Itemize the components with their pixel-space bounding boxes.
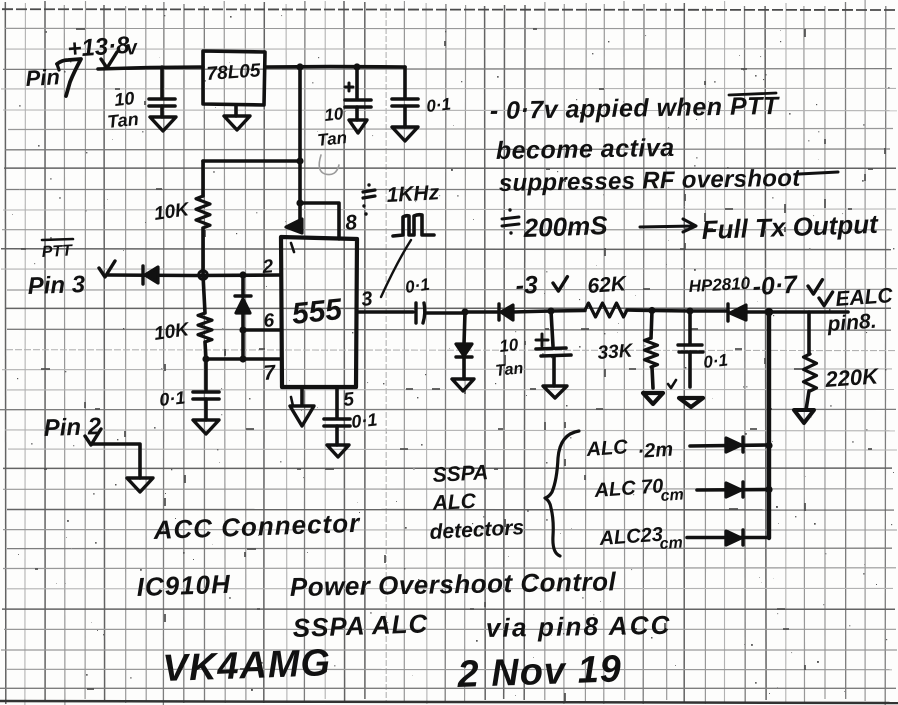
wire rail segment: [465, 310, 499, 314]
wire 78L05 output rail: [265, 65, 405, 69]
svg-text:0·1: 0·1: [425, 95, 451, 116]
svg-text:220K: 220K: [824, 363, 881, 392]
node +13.8V supply label: [67, 32, 141, 68]
capacitor 10uF tantalum C2 with plus: [345, 63, 371, 120]
ground C2: [349, 120, 367, 133]
svg-text:suppresses RF overshoot: suppresses RF overshoot: [499, 165, 802, 197]
label pin 5: [342, 389, 355, 411]
svg-text:33K: 33K: [597, 341, 635, 364]
capacitor 0.1uF C4: [193, 359, 219, 420]
label pin 1 tick: [291, 397, 293, 406]
svg-text:0·1: 0·1: [158, 387, 186, 410]
diode D6 HP2810 series: [728, 304, 769, 321]
wire ALC rail vertical: [767, 312, 771, 538]
label -3v: [515, 271, 568, 300]
label date 2 Nov 19: [456, 648, 623, 696]
label note line4: [502, 208, 880, 245]
svg-text:6: 6: [263, 310, 275, 332]
svg-text:ALC: ALC: [585, 436, 629, 461]
diode D1 on PTT line: [143, 266, 158, 284]
label C8 value: [702, 351, 728, 372]
wire pin7 line: [206, 357, 281, 361]
svg-text:EALC: EALC: [835, 284, 894, 311]
label C2 value: [316, 104, 347, 150]
label C4 value: [158, 387, 186, 410]
node junction dot at (465,313): [461, 308, 468, 315]
op-amp 555 timer U1: [281, 237, 357, 387]
resistor 10K R1: [196, 161, 210, 275]
node PTT label with overline: [41, 239, 73, 261]
wire pin4 arrow: [286, 203, 302, 252]
diode D9 ALC 23cm: [726, 530, 743, 545]
regulator 78L05 U2: [203, 51, 265, 105]
diode D4 to ground: [456, 312, 472, 379]
label pin 2: [261, 256, 274, 278]
label 1KHz annotation: [362, 181, 440, 215]
svg-text:IC910H: IC910H: [136, 569, 231, 602]
label R5 value: [824, 363, 881, 392]
ground C4: [193, 420, 219, 434]
svg-text:cm: cm: [659, 534, 683, 553]
svg-text:- 0·7v appied when PTT: - 0·7v appied when PTT: [490, 92, 781, 125]
svg-text:0·1: 0·1: [404, 275, 431, 297]
label ALC 70cm: [593, 475, 685, 505]
label R2 value: [153, 319, 192, 345]
svg-text:Tan: Tan: [106, 109, 139, 132]
label note line2: [496, 134, 675, 165]
node junction dot at (551,311): [547, 307, 554, 314]
capacitor 0.1uF C6 coupling: [416, 303, 465, 323]
svg-text:Pin 2: Pin 2: [43, 413, 102, 442]
svg-text:-3: -3: [515, 271, 539, 300]
label Power Overshoot Control: [290, 566, 617, 602]
ground R5: [794, 410, 814, 423]
wire pin1 stub: [300, 387, 304, 405]
node junction dot at (243,359): [239, 355, 246, 362]
ground R4: [643, 380, 676, 404]
svg-text:Pin: Pin: [25, 64, 60, 91]
node brace SSPA ALC group: [545, 431, 579, 556]
svg-text:HP2810: HP2810: [688, 274, 751, 296]
svg-text:ALC23: ALC23: [598, 524, 664, 550]
wire pin6 stub: [243, 328, 281, 332]
label VK4AMG: [162, 642, 332, 690]
label C3 value: [425, 95, 451, 116]
node junction dot at (769,312): [765, 308, 773, 316]
label pin 7: [263, 361, 278, 385]
label D6 part HP2810: [688, 274, 751, 296]
svg-text:SSPA: SSPA: [432, 461, 489, 487]
ground pin1: [290, 406, 314, 426]
node junction dot at (769,446): [765, 442, 772, 449]
label note line3: [499, 165, 838, 197]
node junction dot at (243,330): [239, 326, 246, 333]
node junction V+ rail at x300: [296, 63, 303, 70]
svg-text:10: 10: [498, 335, 519, 356]
wire Pin2 to ground: [85, 429, 140, 478]
diode D8 ALC 70cm: [726, 482, 743, 497]
svg-text:3: 3: [360, 288, 373, 311]
svg-text:62K: 62K: [587, 272, 629, 298]
wire cross rail to R1: [203, 159, 300, 163]
svg-text:Pin 3: Pin 3: [27, 271, 86, 300]
label C5 value: [350, 409, 378, 432]
label pin 3: [360, 288, 373, 311]
label R3 value: [587, 272, 629, 298]
label C1 value: [106, 88, 139, 132]
node junction dot at (300,203): [296, 199, 303, 206]
label R4 value: [597, 341, 635, 364]
label SSPA ALC: [292, 608, 429, 643]
svg-text:Tan: Tan: [495, 360, 525, 380]
node Pin 7 label: [25, 59, 81, 96]
node junction dot at (243,275): [239, 271, 246, 278]
svg-text:0·1: 0·1: [350, 409, 378, 432]
capacitor 10uF tantalum C7 with plus: [536, 311, 571, 386]
ground D4: [452, 379, 474, 391]
diode D2 vertical: [235, 275, 251, 330]
node junction at (300,161): [296, 157, 303, 164]
wire PTT input with check: [99, 261, 281, 277]
label C6 value: [404, 275, 431, 297]
resistor 62K R3: [551, 303, 652, 317]
label -0.7v: [752, 271, 823, 301]
label IC910H: [136, 569, 231, 602]
svg-text:0·1: 0·1: [702, 351, 728, 372]
node junction dot at (769,490): [765, 486, 772, 493]
wire ALC 70cm line: [697, 488, 769, 492]
label R1 value: [153, 199, 192, 225]
svg-text:·2m: ·2m: [637, 439, 674, 463]
svg-text:78L05: 78L05: [206, 60, 262, 85]
ground C8: [679, 398, 703, 407]
wire pin8 loop: [300, 203, 339, 239]
wire ALC 23cm line: [687, 536, 769, 540]
svg-text:pin8.: pin8.: [826, 310, 877, 336]
resistor 10K R2: [198, 275, 212, 359]
ground C1: [150, 117, 176, 131]
node pulse waveform symbol: [393, 215, 434, 236]
ground C3: [392, 127, 418, 141]
capacitor 10uF tantalum C1: [149, 67, 175, 117]
node junction dot at (690,311): [686, 307, 693, 314]
node Pin 2 label: [43, 413, 102, 442]
label pin 6: [263, 310, 275, 332]
label SSPA ALC detectors: [429, 461, 525, 544]
wire pin5 stub: [335, 387, 339, 417]
wire V+ drop to 555 supply: [298, 67, 302, 203]
node junction dot at (206,359): [202, 355, 209, 362]
resistor 33K R4: [645, 311, 658, 388]
capacitor 0.1uF C5: [324, 419, 350, 445]
svg-text:10: 10: [113, 88, 135, 110]
svg-text:PTT: PTT: [41, 242, 73, 261]
ground C7: [543, 386, 567, 398]
node junction ring at (203,275): [199, 271, 208, 280]
label pin 8: [344, 211, 358, 235]
wire rail segment 2: [652, 309, 728, 313]
ground 78L05: [224, 105, 250, 130]
wire rail to EALC: [769, 310, 848, 314]
label via pin8 ACC: [486, 610, 672, 643]
svg-text:Full Tx Output: Full Tx Output: [701, 209, 879, 245]
svg-text:10: 10: [323, 104, 344, 125]
wire pointer from waveform to pin3: [381, 240, 411, 297]
svg-text:1KHz: 1KHz: [386, 181, 440, 207]
svg-text:-0·7: -0·7: [752, 271, 799, 301]
svg-text:ALC: ALC: [431, 490, 477, 515]
capacitor 0.1uF C8: [678, 311, 703, 387]
wire pin3 output: [357, 310, 413, 314]
svg-text:become activa: become activa: [496, 134, 675, 165]
svg-text:cm: cm: [660, 486, 684, 505]
label ALC 23cm: [598, 524, 684, 553]
label ACC Connector: [152, 508, 361, 545]
label C7 value: [495, 335, 525, 380]
wire ALC 2m line: [690, 445, 769, 446]
wire D2 to pin7 node: [241, 330, 245, 359]
label EALC pin8: [819, 284, 894, 336]
node junction dot at (652,311): [648, 307, 655, 314]
label ALC 2m: [585, 436, 674, 463]
svg-text:VK4AMG: VK4AMG: [162, 642, 332, 690]
node faint pencil mark: [319, 155, 339, 175]
diode D5 series: [499, 304, 551, 320]
diode D7 ALC 2m: [726, 437, 743, 452]
svg-text:555: 555: [290, 293, 345, 331]
svg-text:2: 2: [261, 256, 274, 278]
svg-text:Tan: Tan: [316, 128, 347, 150]
svg-text:200mS: 200mS: [522, 210, 608, 243]
svg-text:via pin8 ACC: via pin8 ACC: [486, 610, 672, 643]
label note line1: [490, 92, 781, 125]
node Pin 3 label: [27, 271, 86, 300]
capacitor 0.1uF C3: [392, 67, 418, 127]
ground C5: [327, 445, 349, 457]
svg-text:SSPA ALC: SSPA ALC: [292, 608, 429, 643]
ground Pin2: [127, 478, 153, 492]
resistor 220K R5: [804, 312, 817, 410]
wire Pin7 to 78L05 input: [98, 67, 203, 69]
svg-text:Power Overshoot Control: Power Overshoot Control: [290, 566, 617, 602]
svg-text:2 Nov 19: 2 Nov 19: [456, 648, 623, 696]
